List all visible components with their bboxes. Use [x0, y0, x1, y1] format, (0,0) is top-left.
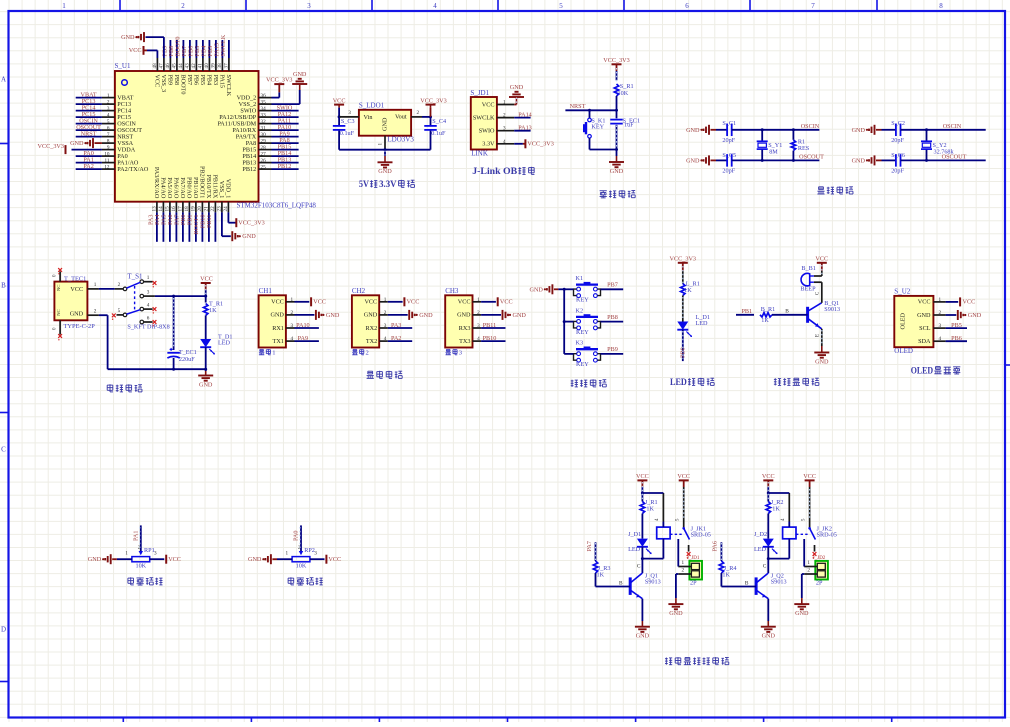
svg-text:CH3: CH3 [445, 287, 459, 295]
svg-text:PA7/AO: PA7/AO [179, 177, 186, 199]
svg-text:LED: LED [628, 546, 641, 553]
svg-text:VCC_3V3: VCC_3V3 [238, 220, 264, 227]
svg-text:4: 4 [939, 336, 942, 342]
svg-text:4: 4 [503, 139, 506, 145]
svg-text:SWCLK: SWCLK [220, 34, 227, 56]
svg-text:VCC: VCC [168, 556, 181, 563]
svg-text:GND: GND [795, 610, 809, 617]
svg-text:S_C5: S_C5 [722, 152, 736, 159]
svg-text:GND: GND [121, 34, 135, 41]
svg-text:18: 18 [184, 206, 190, 212]
svg-text:3: 3 [384, 323, 387, 329]
svg-text:1uF: 1uF [624, 122, 634, 129]
svg-text:36: 36 [261, 93, 267, 99]
svg-text:S_JD1: S_JD1 [470, 89, 489, 97]
svg-text:D: D [1, 626, 6, 634]
svg-text:1: 1 [272, 350, 275, 357]
svg-text:B: B [619, 581, 623, 587]
svg-text:3: 3 [348, 110, 351, 116]
svg-text:0.1uF: 0.1uF [431, 130, 446, 137]
svg-text:1K: 1K [761, 317, 769, 324]
svg-text:PB10/TX: PB10/TX [205, 175, 212, 199]
svg-text:SWCLK: SWCLK [473, 114, 495, 121]
svg-text:GND: GND [419, 312, 433, 319]
svg-text:PA2: PA2 [391, 335, 401, 342]
svg-text:3: 3 [307, 2, 311, 10]
svg-text:GND: GND [968, 312, 982, 319]
svg-text:1: 1 [125, 551, 128, 557]
svg-text:PA13: PA13 [518, 125, 532, 132]
svg-text:J-Link OB: J-Link OB [472, 166, 517, 176]
svg-text:3.3V: 3.3V [482, 141, 495, 148]
svg-text:21: 21 [204, 206, 210, 212]
svg-text:VCC: VCC [918, 299, 931, 306]
svg-text:VCC_3V3: VCC_3V3 [38, 143, 64, 150]
svg-text:CH1: CH1 [259, 287, 273, 295]
svg-text:PB6: PB6 [951, 335, 962, 342]
svg-text:PB12: PB12 [242, 166, 256, 173]
svg-text:1K: 1K [646, 506, 654, 513]
svg-text:TYPE-C-2P: TYPE-C-2P [64, 323, 96, 330]
svg-text:PB11: PB11 [206, 215, 213, 229]
svg-text:33: 33 [261, 112, 267, 118]
svg-text:PA9: PA9 [298, 335, 308, 342]
svg-text:SDA: SDA [918, 338, 931, 345]
svg-text:GND: GND [364, 312, 378, 319]
svg-text:22: 22 [210, 206, 216, 212]
svg-text:6: 6 [107, 125, 110, 131]
svg-text:VCC_3V3: VCC_3V3 [420, 97, 446, 104]
svg-text:11: 11 [105, 158, 110, 164]
svg-text:1: 1 [107, 93, 110, 99]
svg-text:PB8: PB8 [607, 314, 618, 321]
svg-text:10: 10 [104, 151, 110, 157]
svg-text:GND: GND [686, 157, 700, 164]
svg-text:2: 2 [291, 310, 294, 316]
svg-text:1: 1 [503, 100, 506, 106]
svg-text:0.1uF: 0.1uF [340, 130, 355, 137]
svg-text:20pF: 20pF [722, 137, 735, 144]
svg-text:S_C2: S_C2 [891, 120, 905, 127]
svg-text:2: 2 [417, 110, 420, 116]
svg-text:PA0: PA0 [293, 531, 300, 541]
svg-text:LED: LED [218, 340, 231, 347]
svg-text:20: 20 [197, 206, 203, 212]
svg-text:K2: K2 [576, 307, 584, 314]
svg-text:3: 3 [477, 323, 480, 329]
svg-text:SRD-05: SRD-05 [817, 532, 837, 539]
svg-text:PA6/AO: PA6/AO [173, 177, 180, 199]
svg-text:VCC: VCC [677, 473, 690, 480]
svg-text:GND: GND [852, 157, 866, 164]
svg-text:20pF: 20pF [891, 168, 904, 175]
svg-text:2: 2 [503, 113, 506, 119]
svg-text:9: 9 [107, 145, 110, 151]
svg-text:2: 2 [181, 2, 185, 10]
svg-text:34: 34 [261, 106, 267, 112]
svg-text:PB8: PB8 [173, 75, 180, 86]
svg-text:SWCLK: SWCLK [225, 75, 232, 97]
svg-text:3: 3 [939, 323, 942, 329]
svg-text:1K: 1K [209, 307, 217, 314]
svg-text:25: 25 [261, 164, 267, 170]
svg-text:GND: GND [248, 556, 262, 563]
svg-text:C: C [763, 564, 767, 570]
svg-text:C: C [1, 446, 6, 454]
svg-text:PB1: PB1 [741, 308, 752, 315]
svg-text:GND: GND [513, 312, 527, 319]
svg-text:1: 1 [682, 560, 685, 566]
svg-text:1: 1 [291, 297, 294, 303]
svg-text:GND: GND [88, 556, 102, 563]
svg-text:RX1: RX1 [272, 325, 284, 332]
svg-text:PB5: PB5 [199, 75, 206, 86]
svg-text:8: 8 [939, 2, 943, 10]
svg-text:VCC: VCC [154, 75, 161, 88]
svg-text:27: 27 [261, 151, 267, 157]
svg-text:LINK: LINK [471, 149, 488, 157]
svg-text:10K: 10K [618, 90, 629, 97]
svg-text:4: 4 [147, 302, 150, 308]
svg-text:OSCOUT: OSCOUT [799, 153, 824, 160]
svg-text:KEY: KEY [591, 124, 604, 131]
svg-text:GND: GND [293, 71, 307, 78]
svg-text:S_C4: S_C4 [432, 118, 446, 125]
svg-text:B: B [785, 309, 789, 315]
svg-text:1: 1 [807, 560, 810, 566]
svg-text:3: 3 [107, 106, 110, 112]
svg-text:GND: GND [762, 633, 776, 640]
svg-text:T_TEC1: T_TEC1 [64, 276, 86, 283]
svg-text:SCL: SCL [919, 325, 931, 332]
svg-text:38: 38 [217, 63, 223, 69]
svg-text:1K: 1K [684, 287, 692, 294]
svg-text:47: 47 [159, 63, 165, 69]
svg-text:VCC: VCC [313, 298, 326, 305]
svg-text:7: 7 [811, 2, 815, 10]
svg-text:STM32F103C8T6_LQFP48: STM32F103C8T6_LQFP48 [237, 202, 317, 210]
svg-text:1: 1 [939, 297, 942, 303]
svg-text:PA10: PA10 [296, 322, 310, 329]
svg-text:PA4/AO: PA4/AO [160, 177, 167, 199]
svg-text:PA3: PA3 [391, 322, 401, 329]
svg-text:VCC: VCC [482, 101, 495, 108]
svg-text:35: 35 [261, 99, 267, 105]
svg-text:KEY: KEY [576, 361, 589, 368]
svg-text:3: 3 [314, 551, 317, 557]
svg-text:1: 1 [147, 275, 150, 281]
svg-text:TX2: TX2 [366, 338, 377, 345]
svg-text:Vout: Vout [395, 114, 407, 121]
svg-text:PB5: PB5 [951, 322, 962, 329]
svg-text:VCC: VCC [803, 473, 816, 480]
svg-text:VCC: VCC [407, 298, 420, 305]
svg-text:PB7: PB7 [607, 282, 618, 289]
svg-text:VCC: VCC [762, 473, 775, 480]
svg-text:GND: GND [378, 168, 392, 175]
svg-text:GND: GND [815, 358, 829, 365]
svg-text:220uF: 220uF [179, 356, 195, 363]
svg-text:PB7: PB7 [186, 75, 193, 86]
svg-text:28: 28 [261, 145, 267, 151]
svg-text:41: 41 [198, 63, 204, 69]
svg-text:4: 4 [433, 2, 437, 10]
svg-text:10K: 10K [296, 563, 307, 570]
svg-text:4: 4 [477, 336, 480, 342]
svg-text:2: 2 [384, 310, 387, 316]
svg-text:LED: LED [696, 320, 709, 327]
svg-text:VDD_1: VDD_1 [225, 179, 232, 199]
svg-text:3: 3 [154, 551, 157, 557]
svg-text:PB6: PB6 [193, 75, 200, 86]
svg-text:1: 1 [384, 297, 387, 303]
svg-text:1: 1 [477, 297, 480, 303]
svg-text:PB2/BOOT1: PB2/BOOT1 [199, 166, 206, 198]
svg-text:VCC: VCC [500, 298, 513, 305]
svg-text:OLED: OLED [894, 347, 913, 355]
svg-text:44: 44 [178, 63, 184, 69]
svg-text:7: 7 [107, 132, 110, 138]
svg-text:S_U1: S_U1 [115, 62, 131, 70]
svg-text:PA14: PA14 [518, 111, 532, 118]
svg-text:GND: GND [242, 233, 256, 240]
svg-text:B: B [745, 581, 749, 587]
svg-text:43: 43 [185, 63, 191, 69]
svg-text:VCC_3V3: VCC_3V3 [266, 77, 292, 84]
svg-text:2: 2 [477, 310, 480, 316]
svg-text:46: 46 [165, 63, 171, 69]
svg-text:GND: GND [326, 312, 340, 319]
svg-text:C: C [637, 564, 641, 570]
svg-text:GND: GND [510, 84, 524, 91]
svg-text:VSS_1: VSS_1 [218, 181, 225, 199]
svg-text:1K: 1K [772, 506, 780, 513]
svg-text:S_LDO1: S_LDO1 [359, 102, 385, 110]
svg-text:J_D2: J_D2 [754, 531, 767, 538]
svg-text:Vin: Vin [364, 114, 373, 121]
svg-text:GND: GND [270, 312, 284, 319]
svg-text:VCC: VCC [815, 255, 828, 262]
svg-text:1: 1 [286, 551, 289, 557]
svg-text:S_C3: S_C3 [341, 118, 355, 125]
svg-text:48: 48 [152, 63, 158, 69]
svg-text:20pF: 20pF [891, 137, 904, 144]
svg-text:VCC: VCC [70, 286, 83, 293]
svg-text:GND: GND [636, 633, 650, 640]
svg-text:3: 3 [291, 323, 294, 329]
svg-text:VCC: VCC [364, 299, 377, 306]
svg-text:4: 4 [384, 336, 387, 342]
svg-text:PB12: PB12 [278, 163, 292, 170]
svg-text:S9013: S9013 [645, 579, 661, 586]
svg-text:4: 4 [107, 112, 110, 118]
svg-text:37: 37 [224, 63, 230, 69]
svg-text:NRST: NRST [570, 103, 586, 110]
svg-text:VCC_3V3: VCC_3V3 [670, 255, 696, 262]
svg-text:1: 1 [378, 143, 384, 146]
svg-text:OSCIN: OSCIN [943, 123, 962, 130]
svg-text:19: 19 [191, 206, 197, 212]
svg-text:24: 24 [223, 206, 229, 212]
svg-text:1K: 1K [597, 572, 605, 579]
svg-text:GND: GND [529, 286, 543, 293]
svg-text:GND: GND [199, 381, 213, 388]
svg-text:LDO3V3: LDO3V3 [387, 136, 414, 144]
svg-text:OLED: OLED [900, 312, 907, 329]
svg-text:2: 2 [682, 568, 685, 574]
svg-text:3: 3 [503, 126, 506, 132]
svg-text:14: 14 [158, 206, 164, 212]
svg-text:OLED: OLED [911, 365, 934, 375]
svg-text:2: 2 [939, 310, 942, 316]
svg-text:26: 26 [261, 158, 267, 164]
svg-text:BEEP: BEEP [800, 286, 816, 293]
svg-text:NRST: NRST [81, 130, 97, 137]
svg-text:PB0/AO: PB0/AO [186, 177, 193, 199]
svg-text:OSCIN: OSCIN [801, 123, 820, 130]
svg-text:32: 32 [261, 119, 267, 125]
svg-text:VCC: VCC [129, 47, 142, 54]
svg-text:KEY: KEY [576, 297, 589, 304]
svg-text:PA1: PA1 [133, 531, 140, 541]
svg-text:2P: 2P [690, 580, 697, 587]
svg-text:B_R1: B_R1 [761, 306, 775, 313]
svg-text:RX3: RX3 [459, 325, 471, 332]
svg-text:PB0: PB0 [679, 347, 686, 358]
svg-text:SRD-05: SRD-05 [691, 532, 711, 539]
svg-text:PB11: PB11 [483, 322, 497, 329]
svg-text:PA6: PA6 [712, 541, 719, 551]
svg-text:VCC_3V3: VCC_3V3 [603, 57, 629, 64]
svg-text:VCC: VCC [271, 299, 284, 306]
svg-text:E: E [816, 334, 821, 337]
svg-text:20pF: 20pF [722, 168, 735, 175]
svg-text:VCC: VCC [200, 276, 213, 283]
svg-text:VCC_3V3: VCC_3V3 [527, 140, 553, 147]
svg-text:6: 6 [147, 315, 150, 321]
svg-text:6: 6 [685, 2, 689, 10]
svg-text:SWIO: SWIO [479, 128, 495, 135]
svg-text:42: 42 [191, 63, 197, 69]
svg-text:TX3: TX3 [459, 338, 470, 345]
svg-text:2: 2 [118, 282, 121, 288]
svg-text:RES: RES [798, 145, 810, 152]
svg-text:T_EC1: T_EC1 [179, 349, 197, 356]
svg-text:13: 13 [152, 206, 158, 212]
svg-text:8M: 8M [769, 149, 778, 156]
svg-text:S_KFT DIP-8X8: S_KFT DIP-8X8 [127, 324, 169, 331]
svg-text:KEY: KEY [576, 329, 589, 336]
svg-text:NC: NC [56, 309, 61, 315]
svg-text:3.3V: 3.3V [379, 179, 397, 189]
svg-text:3: 3 [147, 289, 150, 295]
svg-text:GND: GND [70, 311, 84, 318]
svg-text:5: 5 [559, 2, 563, 10]
svg-text:10K: 10K [135, 563, 146, 570]
svg-text:31: 31 [261, 125, 267, 131]
svg-text:39: 39 [211, 63, 217, 69]
svg-text:VSS_3: VSS_3 [160, 75, 167, 93]
svg-text:17: 17 [178, 206, 184, 212]
svg-text:16: 16 [171, 206, 177, 212]
svg-text:30: 30 [261, 132, 267, 138]
svg-text:PB10: PB10 [483, 335, 497, 342]
svg-text:GND: GND [669, 610, 683, 617]
svg-text:5V: 5V [359, 179, 369, 189]
svg-text:B_B1: B_B1 [801, 265, 815, 272]
svg-text:NC: NC [56, 285, 61, 291]
svg-text:1: 1 [94, 282, 97, 288]
svg-text:S_C1: S_C1 [722, 120, 736, 127]
svg-text:TX1: TX1 [273, 338, 284, 345]
svg-text:GND: GND [70, 140, 84, 147]
svg-text:PA5/AO: PA5/AO [166, 177, 173, 199]
svg-text:40: 40 [204, 63, 210, 69]
svg-text:S9013: S9013 [771, 579, 787, 586]
svg-text:VCC: VCC [963, 299, 976, 306]
svg-text:LED: LED [670, 377, 687, 387]
svg-text:PA2: PA2 [83, 163, 93, 170]
svg-text:A: A [1, 76, 6, 84]
svg-text:VCC: VCC [636, 473, 649, 480]
svg-text:VCC: VCC [333, 97, 346, 104]
svg-text:2P: 2P [816, 580, 823, 587]
svg-text:PA7: PA7 [586, 541, 593, 551]
svg-text:1K: 1K [722, 572, 730, 579]
svg-text:2: 2 [94, 308, 97, 314]
svg-text:5: 5 [118, 308, 121, 314]
svg-text:PB1/AO: PB1/AO [192, 177, 199, 199]
svg-text:23: 23 [217, 206, 223, 212]
svg-text:VCC: VCC [458, 299, 471, 306]
svg-text:PB9: PB9 [167, 75, 174, 86]
svg-text:S_C6: S_C6 [891, 152, 905, 159]
svg-text:15: 15 [165, 206, 171, 212]
svg-text:GND: GND [457, 312, 471, 319]
svg-text:PA15: PA15 [219, 75, 226, 89]
svg-text:PB9: PB9 [607, 346, 618, 353]
svg-text:J_D1: J_D1 [628, 531, 641, 538]
svg-text:PA2/TX/AO: PA2/TX/AO [117, 166, 149, 173]
svg-text:BOOT0: BOOT0 [180, 75, 187, 95]
svg-text:GND: GND [382, 117, 389, 131]
svg-text:K1: K1 [576, 275, 584, 282]
svg-text:GND: GND [852, 127, 866, 134]
svg-text:PB3: PB3 [212, 75, 219, 86]
svg-text:S9013: S9013 [824, 306, 840, 313]
svg-text:S_U2: S_U2 [894, 288, 910, 296]
svg-text:1: 1 [62, 2, 66, 10]
svg-text:RX2: RX2 [365, 325, 377, 332]
svg-text:2: 2 [807, 568, 810, 574]
svg-text:PB11/RX: PB11/RX [212, 174, 219, 198]
svg-text:32.768k: 32.768k [934, 149, 955, 156]
svg-text:B: B [1, 282, 6, 290]
svg-text:29: 29 [261, 138, 267, 144]
svg-text:GND: GND [686, 127, 700, 134]
svg-text:PA3/RX/AO: PA3/RX/AO [153, 167, 160, 199]
svg-text:K3: K3 [576, 340, 584, 347]
svg-text:LED: LED [754, 546, 767, 553]
svg-text:T_S1: T_S1 [127, 273, 143, 281]
svg-text:4: 4 [291, 336, 294, 342]
svg-text:CH2: CH2 [352, 287, 366, 295]
svg-text:8: 8 [107, 138, 110, 144]
svg-text:VCC: VCC [328, 556, 341, 563]
svg-text:45: 45 [172, 63, 178, 69]
svg-text:GND: GND [917, 312, 931, 319]
svg-text:5: 5 [107, 119, 110, 125]
